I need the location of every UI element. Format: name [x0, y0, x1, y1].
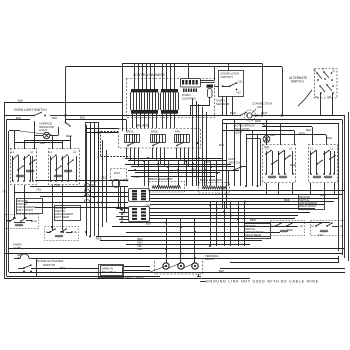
svg-text:YEL: YEL [17, 258, 22, 260]
svg-text:RED: RED [287, 228, 293, 232]
svg-text:SWITCH: SWITCH [43, 263, 55, 267]
svg-text:L2: L2 [30, 150, 33, 154]
svg-text:BLK: BLK [205, 160, 210, 164]
svg-text:BLK: BLK [18, 99, 23, 103]
svg-text:L2: L2 [330, 147, 333, 151]
svg-text:YEL: YEL [101, 176, 107, 180]
svg-text:YEL: YEL [191, 168, 197, 172]
svg-text:BAKE ELEMENT: BAKE ELEMENT [200, 178, 223, 182]
svg-text:BAKE: BAKE [151, 130, 158, 134]
svg-text:L1: L1 [314, 69, 317, 73]
svg-text:FAN: FAN [257, 105, 263, 109]
svg-text:TAN: TAN [145, 204, 150, 208]
svg-text:BLK: BLK [327, 136, 332, 140]
svg-text:2a: 2a [34, 220, 37, 223]
svg-text:L2: L2 [332, 69, 335, 73]
svg-text:RED: RED [96, 237, 102, 241]
svg-text:BLK: BLK [146, 222, 151, 226]
svg-text:OVEN LIGHT SWITCH: OVEN LIGHT SWITCH [14, 108, 47, 112]
svg-text:BROIL: BROIL [126, 130, 134, 134]
svg-text:LAMP: LAMP [13, 246, 21, 250]
svg-text:BLK: BLK [80, 116, 85, 120]
svg-text:N2: N2 [328, 95, 332, 99]
svg-text:LEFT FRONT: LEFT FRONT [17, 208, 33, 212]
svg-text:RED: RED [255, 119, 261, 123]
svg-text:RED: RED [284, 198, 290, 202]
svg-text:RELAYS: RELAYS [136, 124, 148, 128]
svg-text:YEL: YEL [36, 188, 42, 192]
svg-text:BLK: BLK [219, 143, 224, 147]
svg-text:TAN: TAN [318, 233, 323, 237]
svg-text:L1: L1 [11, 150, 14, 154]
svg-text:RED: RED [230, 111, 236, 115]
svg-text:RED: RED [320, 193, 326, 197]
svg-text:BLK: BLK [270, 133, 275, 137]
svg-text:L2: L2 [289, 147, 292, 151]
svg-text:BLK: BLK [40, 141, 45, 145]
svg-text:FAN: FAN [175, 130, 180, 134]
svg-text:BX CABLE: BX CABLE [102, 270, 116, 274]
svg-text:CONTROL HARNESS: CONTROL HARNESS [133, 73, 165, 77]
svg-text:LIGHT: LIGHT [234, 131, 243, 135]
svg-text:RED: RED [66, 134, 72, 138]
svg-text:BROIL ELEMENT: BROIL ELEMENT [149, 177, 173, 181]
svg-text:GRY: GRY [137, 240, 143, 244]
svg-text:BLK: BLK [306, 128, 311, 132]
svg-text:SWITCH: SWITCH [291, 80, 304, 84]
svg-text:BLK: BLK [60, 266, 65, 270]
svg-text:YEL: YEL [137, 244, 142, 248]
svg-text:BLOCK: BLOCK [205, 257, 214, 261]
svg-text:RED: RED [290, 163, 296, 167]
svg-text:SWITCH: SWITCH [221, 75, 233, 79]
svg-text:CONTROL: CONTROL [182, 97, 197, 101]
svg-text:RED: RED [137, 237, 143, 241]
svg-text:RED: RED [250, 218, 256, 222]
svg-text:RED: RED [137, 247, 143, 251]
svg-text:FAN: FAN [114, 171, 120, 175]
svg-text:P: P [323, 68, 325, 72]
svg-text:SWITCH: SWITCH [228, 161, 240, 165]
svg-text:PRP: PRP [91, 180, 97, 184]
svg-text:L1: L1 [310, 147, 313, 151]
svg-text:BLK: BLK [52, 116, 57, 120]
svg-text:NC: NC [239, 80, 243, 84]
svg-text:L2: L2 [73, 150, 76, 154]
svg-text:PRP: PRP [134, 175, 140, 179]
svg-text:2a: 2a [74, 231, 77, 234]
svg-text:RED: RED [254, 114, 260, 118]
svg-text:RIGHT FRONT: RIGHT FRONT [299, 204, 317, 208]
svg-text:RIGHT REAR: RIGHT REAR [245, 233, 261, 237]
svg-text:GROUND LINK NOT USED WITH BX C: GROUND LINK NOT USED WITH BX CABLE WIRE [206, 280, 319, 284]
svg-text:L1: L1 [49, 150, 52, 154]
svg-text:1a: 1a [311, 225, 314, 228]
svg-text:GRY: GRY [17, 255, 22, 257]
svg-text:NO: NO [237, 91, 242, 95]
svg-text:N1: N1 [315, 95, 319, 99]
svg-text:2a: 2a [300, 225, 303, 228]
svg-text:LIGHT: LIGHT [39, 128, 48, 132]
svg-text:TAN: TAN [264, 145, 269, 149]
